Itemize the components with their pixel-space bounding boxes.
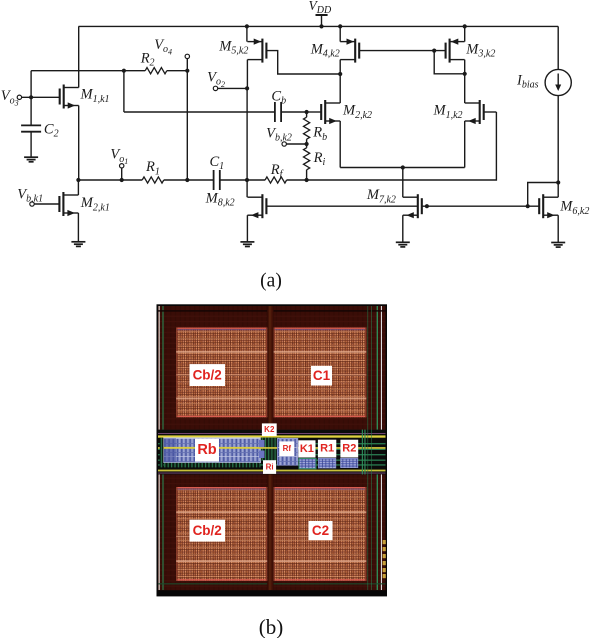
wire Ibias to M6,k2 drain <box>557 96 559 183</box>
capacitor array block C2 <box>274 487 367 581</box>
junction M6,k2 diode node <box>526 204 530 208</box>
svg-text:(b): (b) <box>259 615 284 638</box>
label M3,k2 <box>465 41 495 59</box>
junction Ibias / M6,k2 drain node <box>556 180 560 184</box>
junction M2,k2 gate node <box>305 110 309 114</box>
wire M1,k2 drain up <box>464 74 466 103</box>
wire Vo3 node down to C2 <box>30 97 32 125</box>
label M1,k1 <box>80 87 110 105</box>
label Cb <box>271 88 286 106</box>
transistor M1,k1 <box>60 85 79 109</box>
label Vb,k2 <box>266 126 292 144</box>
node Vb,k2 terminal <box>282 142 286 146</box>
svg-text:Rf: Rf <box>283 444 292 453</box>
wire Rb bottom stub <box>306 139 308 144</box>
ground M2,k1 ground <box>71 242 85 247</box>
wire M1,k2 gate lead wire <box>484 111 497 113</box>
resistor block under R1 <box>318 458 335 468</box>
layout label C1 <box>311 366 332 386</box>
label R2 <box>140 51 155 69</box>
layout divider column <box>267 306 273 590</box>
layout right edge yellow marks <box>383 540 386 578</box>
current source Ibias <box>545 69 571 95</box>
wire M1,k1 source down to Vo1 node <box>78 106 80 181</box>
wire Rf to Ri node <box>287 179 307 181</box>
junction Vo1 node <box>120 178 124 182</box>
transistor M1,k2 <box>465 100 484 124</box>
svg-text:C2: C2 <box>312 523 329 538</box>
junction M1,k1 source / M2,k1 drain node <box>76 178 80 182</box>
svg-text:Rb: Rb <box>197 442 216 458</box>
resistor R2 <box>145 68 167 74</box>
svg-text:(a): (a) <box>260 271 282 292</box>
wire M3,k2 diode connection <box>434 51 465 74</box>
label M5,k2 <box>218 39 248 57</box>
svg-text:Cb/2: Cb/2 <box>193 523 222 538</box>
layout label R2 <box>340 440 358 458</box>
svg-text:Ri: Ri <box>266 463 274 472</box>
wire Cb to M2,k2 gate node <box>281 111 307 113</box>
wire Vo3 to M1,k1 gate <box>22 96 60 98</box>
transistor M5,k2 <box>247 39 266 63</box>
junction Vo2 node <box>245 86 249 90</box>
wire Ri bottom stub <box>306 170 308 180</box>
layout label C2 <box>309 521 333 540</box>
wire tail down to M7,k2 drain <box>402 168 404 198</box>
layout green tick row under Rb <box>164 463 261 468</box>
layout strip green horizontal lines <box>158 443 386 465</box>
wire M7,k2 source to ground <box>402 215 404 242</box>
capacitor C1 <box>214 170 220 190</box>
junction Vo4 line node <box>185 178 189 182</box>
label Ibias <box>516 73 539 91</box>
wire M1,k2 source down to tail <box>464 121 466 168</box>
svg-text:K2: K2 <box>264 425 275 434</box>
wire M6,k2 drain up to Ibias <box>557 183 559 198</box>
wire Vo2 node down to M8,k2 drain <box>246 88 248 197</box>
transistor block K2 area <box>258 438 282 461</box>
layout label Cb/2 bottom <box>190 520 226 542</box>
node Vo1 terminal <box>120 164 124 168</box>
layout left edge tick marks <box>160 438 164 468</box>
label M2,k1 <box>80 195 110 213</box>
label M2,k2 <box>342 103 372 121</box>
capacitor array block C1 <box>274 328 367 418</box>
junction Vb,k2 node <box>305 142 309 146</box>
junction M4/M3 gate node <box>432 49 436 53</box>
wire M2,k2 gate lead wire <box>307 111 321 113</box>
layout panel background <box>157 304 388 596</box>
node Vo4 terminal <box>185 54 189 58</box>
capacitor C2 <box>21 125 41 131</box>
layout middle strip background <box>158 430 386 475</box>
wire Vo3 node up to R2 line <box>30 71 32 98</box>
IC layout photograph panel <box>157 304 388 596</box>
layout label K1 <box>298 440 315 457</box>
ground C2 ground <box>24 157 38 162</box>
layout label Rf <box>279 441 294 456</box>
junction M4,k2 drain node <box>338 72 342 76</box>
wire VDD rail <box>79 25 559 27</box>
node Vo2 terminal <box>213 86 217 90</box>
label M8,k2 <box>205 190 235 208</box>
ground M6,k2 ground <box>551 243 565 248</box>
label Vo4 <box>154 37 172 56</box>
label C2 <box>44 121 59 139</box>
label M4,k2 <box>310 41 340 59</box>
junction C1 / M8,k2 drain node <box>245 178 249 182</box>
svg-text:Cb/2: Cb/2 <box>193 368 222 383</box>
transistor M7,k2 <box>403 194 422 218</box>
resistor block Rf area <box>277 438 297 465</box>
label M7,k2 <box>366 187 396 205</box>
wire M5,k2 source from rail <box>246 26 248 41</box>
label M6,k2 <box>559 199 589 217</box>
wire M4,k2 source from rail <box>339 26 341 41</box>
layout panel edge lines <box>158 306 386 590</box>
wire Vo4 node down to R1 line <box>186 71 188 180</box>
ground M7,k2 ground <box>396 242 410 247</box>
junction M3,k2 drain node <box>463 72 467 76</box>
resistor block Rb <box>164 438 261 463</box>
junction VDD stub on rail <box>319 24 323 28</box>
svg-text:R2: R2 <box>342 443 356 455</box>
resistor block under K1 <box>299 458 316 468</box>
wire differential pair tail <box>340 167 465 169</box>
wire M2,k1 drain up to Vo1 node <box>77 180 79 195</box>
wire Ri top stub <box>306 144 308 148</box>
transistor M4,k2 <box>340 39 359 63</box>
node Vb,k1 terminal <box>30 202 34 206</box>
node Vo3 terminal <box>17 95 21 99</box>
wire M5,k2 drain down to Vo2 node <box>246 60 248 89</box>
layout strip yellow lines <box>158 433 386 473</box>
transistor M3,k2 <box>446 39 465 63</box>
wire R2 node down to Cb line <box>123 71 125 112</box>
wire Vo1 line <box>78 179 142 181</box>
wire M2,k1 source to ground <box>77 213 79 242</box>
transistor M2,k1 <box>59 192 78 216</box>
wire C1 to Rf node <box>220 179 265 181</box>
transistor M6,k2 <box>539 194 558 218</box>
layout label R1 <box>318 440 336 458</box>
wire M4,k2 gate to M3,k2 gate <box>359 50 445 52</box>
resistor Rf <box>265 177 287 183</box>
junction Rf / Ri feedback node <box>305 178 309 182</box>
wire M8,k2 gate to M7,k2 <box>266 205 417 207</box>
wire M7,k2 gate to M6,k2 gate <box>422 205 539 207</box>
layout label Cb/2 top <box>190 364 226 386</box>
label Vo3 <box>1 88 19 107</box>
layout right margin green lines <box>362 306 372 590</box>
label Rf <box>270 162 284 180</box>
label VDD <box>309 0 332 16</box>
label Vb,k1 <box>17 187 43 205</box>
label R1 <box>145 159 160 177</box>
wire feedback line to M1,k2 gate <box>307 112 497 180</box>
wire Cb line from R2 node <box>124 111 275 113</box>
wire Vo4 stub <box>186 59 188 71</box>
wire M4,k2 drain down <box>339 60 341 74</box>
label M1,k2 <box>433 103 463 121</box>
svg-text:K1: K1 <box>300 443 314 455</box>
wire M5,k2 gate path <box>266 51 340 74</box>
transistor M8,k2 <box>247 194 266 218</box>
resistor Ri <box>304 148 310 170</box>
wire R1 to C1 <box>164 179 214 181</box>
label Rb <box>312 125 327 143</box>
transistor M2,k2 <box>321 100 340 124</box>
capacitor array block Cb/2 top <box>176 328 267 418</box>
resistor R1 <box>142 177 164 183</box>
label Vo2 <box>207 70 225 89</box>
junction R2 left node <box>122 69 126 73</box>
wire rail down to Ibias <box>557 26 559 69</box>
wire M1,k1 drain to VDD rail <box>78 26 80 87</box>
wire M6,k2 source to ground <box>557 215 559 242</box>
svg-text:R1: R1 <box>320 443 334 455</box>
label C1 <box>210 154 225 172</box>
svg-text:C1: C1 <box>313 368 331 383</box>
wire Vo1 stub <box>121 168 123 180</box>
junction Vo3 node <box>29 95 33 99</box>
wire Vo2 to M5,k2 drain <box>218 87 248 89</box>
junction M4,k2 source on rail <box>338 24 342 28</box>
wire Rb top stub <box>306 112 308 117</box>
layout label K2 <box>262 423 277 436</box>
ground M8,k2 ground <box>240 242 254 247</box>
layout label Ri <box>263 460 276 474</box>
resistor block under R2 <box>341 458 358 467</box>
junction M3,k2 source on rail <box>463 24 467 28</box>
wire R2 line left <box>31 70 145 72</box>
wire M6,k2 diode connection <box>528 183 559 207</box>
layout label Rb <box>195 439 219 462</box>
label Ri <box>313 150 326 168</box>
wire M3,k2 drain down <box>464 60 466 74</box>
capacitor Cb <box>275 102 281 122</box>
wire C2 to ground <box>30 132 32 158</box>
wire Vb,k1 to M2,k1 gate <box>34 203 59 205</box>
wire R2 line right <box>167 70 188 72</box>
junction M5,k2 source on rail <box>245 24 249 28</box>
wire M8,k2 source to ground <box>246 215 248 242</box>
wire M3,k2 source from rail <box>464 26 466 41</box>
label Vo1 <box>110 147 128 166</box>
resistor Rb <box>304 117 310 139</box>
wire M2,k2 source down to tail <box>339 121 341 168</box>
junction M7,k2 gate node <box>425 204 429 208</box>
wire M2,k2 drain up <box>339 74 341 103</box>
power VDD symbol <box>316 15 328 26</box>
junction R2 right node <box>185 69 189 73</box>
wire Vb,k2 to Rb/Ri node <box>286 143 306 145</box>
capacitor array block Cb/2 bottom <box>176 487 267 581</box>
junction tail node <box>401 165 405 169</box>
